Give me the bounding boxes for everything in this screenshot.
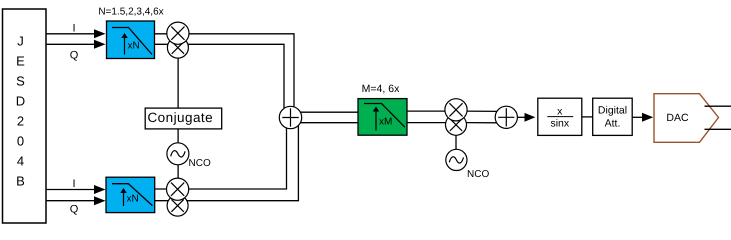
summer S1 [279, 106, 301, 128]
interpolation filter xN (top) [107, 21, 155, 59]
svg-text:Q: Q [70, 204, 79, 216]
svg-text:D: D [16, 94, 25, 109]
svg-text:I: I [72, 178, 75, 190]
wire mixer3 down to NCO2 [455, 128, 457, 150]
x/sinx box [538, 98, 582, 135]
wire mixer3 I to summer S2 [464, 110, 500, 112]
double wire S1 to xM block [300, 112, 358, 123]
arrow S2 to x/sinx [517, 113, 535, 122]
wire bottom Q mixer to summer S1 [154, 120, 298, 201]
interpolation filter xN (bottom) [106, 177, 155, 212]
wire top Q mixer down to Conjugate [177, 52, 179, 108]
wire Conjugate to NCO1 [177, 129, 179, 144]
svg-text:N=1.5,2,3,4,6x: N=1.5,2,3,4,6x [98, 7, 163, 18]
svg-text:4: 4 [17, 154, 24, 169]
summer S2 [495, 106, 517, 128]
mixer bottom Q [167, 195, 188, 216]
interpolation filter xM [358, 99, 407, 136]
wire bottom I mixer to summer S1 [154, 120, 287, 189]
JESD204B input block [3, 9, 47, 223]
wire top I mixer to summer S1 [154, 34, 294, 115]
svg-text:NCO: NCO [189, 158, 211, 169]
wire top Q mixer to summer S1 [154, 44, 284, 115]
connector x/sinx to Digital Att [582, 116, 593, 118]
svg-text:xM: xM [379, 117, 392, 128]
svg-text:B: B [16, 174, 25, 189]
svg-text:NCO: NCO [467, 169, 489, 180]
mixer top I [167, 22, 189, 44]
mixer 3 Q [446, 114, 467, 135]
double wire xM to mixers [407, 111, 451, 123]
wire I top with arrowhead [46, 23, 106, 39]
DAC block [654, 94, 719, 143]
svg-text:E: E [16, 54, 25, 69]
NCO1 oscillator [167, 143, 211, 169]
NCO2 oscillator [446, 149, 490, 180]
svg-text:Q: Q [70, 50, 79, 62]
wire mixer3 Q to summer S2 [464, 122, 500, 124]
DAC output line P [705, 105, 731, 107]
svg-text:J: J [17, 34, 24, 49]
svg-text:Conjugate: Conjugate [147, 110, 213, 125]
svg-text:M=4, 6x: M=4, 6x [362, 83, 400, 95]
svg-text:xN: xN [128, 41, 140, 52]
mixer 3 I [445, 99, 467, 121]
svg-text:x: x [557, 106, 563, 118]
mixer top Q [167, 37, 188, 58]
svg-text:xN: xN [127, 194, 139, 205]
Digital Att. box [593, 98, 633, 135]
svg-text:sinx: sinx [550, 118, 569, 130]
DAC output line N [705, 128, 731, 130]
svg-text:0: 0 [17, 134, 24, 149]
wire NCO1 to bottom mixer [177, 164, 179, 180]
arrow Digital Att to DAC [632, 113, 653, 122]
wire Q bottom with arrowhead [46, 196, 106, 215]
svg-text:Att.: Att. [605, 118, 621, 130]
svg-text:2: 2 [17, 114, 24, 129]
mixer bottom I [167, 178, 189, 200]
svg-text:I: I [72, 23, 75, 35]
wire I bottom with arrowhead [46, 178, 106, 194]
Conjugate box [145, 108, 222, 129]
wire Q top with arrowhead [46, 40, 106, 62]
svg-text:Digital: Digital [598, 105, 627, 117]
svg-text:S: S [16, 74, 25, 89]
svg-text:DAC: DAC [666, 112, 689, 124]
